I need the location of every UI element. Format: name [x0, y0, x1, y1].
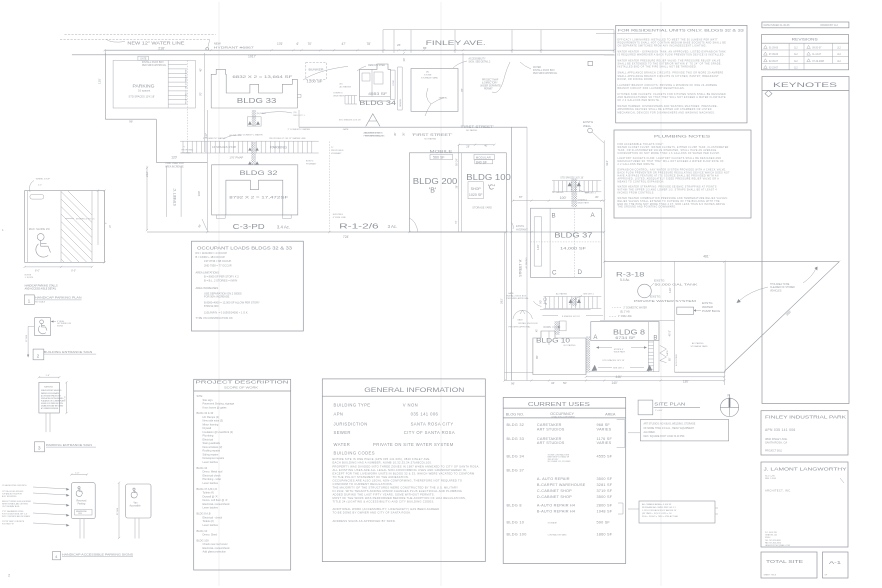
svg-text:TO THE POLICY STATEMENT OF THE: TO THE POLICY STATEMENT OF THE ANNEXATIO… — [333, 475, 410, 479]
gate A-frame south of bldg 34 — [366, 114, 380, 127]
svg-text:D: D — [578, 269, 583, 276]
svg-text:30': 30' — [402, 132, 406, 136]
svg-text:BLDG 34: BLDG 34 — [507, 455, 525, 459]
svg-text:MAX. SLOPE 2%: MAX. SLOPE 2% — [29, 227, 51, 231]
svg-text:IS REQUIRED WHEREVER A BACK FL: IS REQUIRED WHEREVER A BACK FLOW PREVENT… — [618, 54, 725, 57]
svg-text:NO PAVING: NO PAVING — [466, 129, 478, 132]
site north boundary line — [72, 54, 614, 56]
svg-text:Minor framing: Minor framing — [203, 422, 219, 426]
svg-text:PRIVATE ON SITE WATER SYSTEM: PRIVATE ON SITE WATER SYSTEM — [373, 442, 454, 447]
svg-text:Drywall: Drywall — [203, 426, 212, 430]
tree curve in yard — [425, 88, 431, 116]
svg-text:PARKING: PARKING — [133, 83, 155, 88]
street A south end — [505, 372, 534, 374]
svg-text:40': 40' — [484, 144, 488, 148]
svg-text:STRIPE 6': STRIPE 6' — [333, 93, 343, 95]
svg-text:WATER HEATER STRAPPING: PROVID: WATER HEATER STRAPPING: PROVIDE SEISMIC … — [618, 186, 717, 189]
svg-text:ADDED DURING THE LAST FIFTY YE: ADDED DURING THE LAST FIFTY YEARS, SOME … — [333, 493, 435, 497]
svg-text:FINLEY INDUSTRIAL PARK: FINLEY INDUSTRIAL PARK — [765, 415, 847, 420]
svg-text:07-09-06: 07-09-06 — [769, 54, 779, 56]
south boundary at bldg 8 — [675, 371, 726, 373]
existing fire line dashed — [328, 142, 330, 233]
svg-text:NO CLASS 1,11,111 USED: NO CLASS 1,11,111 USED — [548, 460, 571, 463]
svg-text:BLDG 100: BLDG 100 — [197, 538, 210, 542]
svg-text:Check new roof cover: Check new roof cover — [203, 542, 228, 546]
svg-text:Accessible: Accessible — [130, 505, 142, 508]
svg-text:50,000 GAL TANK: 50,000 GAL TANK — [655, 282, 700, 286]
svg-text:OCCUPANCY: OCCUPANCY — [550, 412, 574, 416]
south boundary line 724 ft — [147, 231, 604, 233]
dim between signs — [118, 483, 120, 538]
svg-text:590 SF: 590 SF — [597, 520, 611, 524]
svg-text:Lever latches: Lever latches — [203, 481, 219, 485]
building BLDG 37 outline — [531, 208, 602, 277]
svg-text:GENERAL INFORMATION: GENERAL INFORMATION — [364, 387, 464, 394]
svg-text:GATE: GATE — [666, 350, 669, 356]
svg-text:3281 SF: 3281 SF — [597, 483, 613, 487]
svg-text:Roofing repairs: Roofing repairs — [203, 449, 221, 453]
svg-text:BLDG 37: BLDG 37 — [507, 469, 525, 473]
svg-text:'FIRST STREET': 'FIRST STREET' — [461, 125, 494, 129]
svg-text:BLDG 10: BLDG 10 — [536, 338, 570, 345]
svg-text:BUNKER: BUNKER — [309, 68, 325, 72]
svg-text:INTO CONCRETE BELOW GRADE: INTO CONCRETE BELOW GRADE — [2, 515, 31, 518]
svg-text:AC PAVING: AC PAVING — [525, 257, 528, 268]
bottom dimension line — [505, 380, 725, 382]
svg-text:1948 SF: 1948 SF — [597, 510, 613, 514]
svg-text:1200 SF: 1200 SF — [307, 80, 323, 84]
svg-text:FOR 50% INCREASE: FOR 50% INCREASE — [204, 295, 230, 299]
svg-text:Pavement Striping, signage: Pavement Striping, signage — [203, 402, 235, 406]
svg-text:AC PAVING: AC PAVING — [556, 293, 567, 296]
svg-text:Downspout repairs: Downspout repairs — [203, 456, 225, 460]
svg-text:MECHANICAL DEVICES FOR DISHWAS: MECHANICAL DEVICES FOR DISHWASHERS AND W… — [618, 111, 716, 114]
svg-text:REQUIREMENTS SHALL NOT CONTAIN: REQUIREMENTS SHALL NOT CONTAIN MEDIUM BA… — [618, 41, 727, 44]
detail tag 4 — [53, 552, 61, 560]
svg-text:30': 30' — [595, 195, 599, 199]
svg-text:NEW 12" WATER LINE: NEW 12" WATER LINE — [127, 40, 184, 45]
svg-text:HANDICAP ACCESSIBLE PARKING SI: HANDICAP ACCESSIBLE PARKING SIGNS — [62, 552, 133, 556]
svg-text:Electrical check: Electrical check — [203, 473, 222, 477]
yard east boundary — [462, 53, 464, 126]
svg-text:SEE DET. 1: SEE DET. 1 — [585, 193, 597, 195]
svg-text:1017': 1017' — [248, 55, 257, 59]
svg-text:36': 36' — [456, 185, 459, 189]
svg-text:Lever latches: Lever latches — [203, 506, 219, 510]
svg-text:BLDG 100: BLDG 100 — [466, 173, 511, 182]
svg-text:176': 176' — [277, 42, 283, 46]
svg-text:BLDG 32: BLDG 32 — [240, 170, 278, 177]
svg-text:1860 SF: 1860 SF — [597, 532, 613, 536]
svg-text:C: C — [552, 270, 557, 277]
svg-text:2: 2 — [37, 353, 40, 359]
small square marker — [588, 61, 592, 65]
svg-text:INCHES FROM CONTROLS.: INCHES FROM CONTROLS. — [618, 193, 655, 195]
svg-text:01-29-06: 01-29-06 — [769, 47, 779, 49]
svg-text:4" FIRE LINE: 4" FIRE LINE — [618, 316, 632, 318]
svg-text:(E): (E) — [340, 84, 343, 86]
title block FINLEY INDUSTRIAL PARK — [761, 411, 848, 455]
svg-text:DOWN: DOWN — [544, 327, 552, 329]
svg-text:282': 282' — [499, 298, 503, 304]
svg-text:APN: APN — [334, 412, 344, 417]
dim line above bldg 37 — [513, 200, 604, 202]
svg-text:100': 100' — [197, 190, 201, 196]
parking hatch south of bldg 37 — [544, 296, 602, 298]
svg-text:Site sign.: Site sign. — [203, 398, 214, 402]
svg-text:WELL: WELL — [583, 124, 592, 128]
detail tag 1 — [24, 295, 34, 305]
svg-text:KEYNOTES: KEYNOTES — [773, 82, 838, 89]
svg-text:GATE: GATE — [517, 319, 523, 322]
parking hatch north of bldg 37 — [552, 180, 601, 182]
svg-text:B 8000+4000 = 12,000 SF ALLOW: B 8000+4000 = 12,000 SF ALLOW PER STORY — [204, 301, 260, 305]
svg-text:PRIVATE WATER SYSTEM: PRIVATE WATER SYSTEM — [634, 299, 697, 303]
svg-text:11-14-07: 11-14-07 — [812, 54, 822, 56]
svg-text:8'-0": 8'-0" — [71, 269, 76, 272]
svg-text:B = B.L. 2 STORIES = INF/N: B = B.L. 2 STORIES = INF/N — [204, 278, 237, 282]
site plan scale box — [638, 400, 653, 415]
svg-text:Electrical- review/check: Electrical- review/check — [203, 502, 231, 506]
svg-text:30': 30' — [402, 57, 406, 61]
svg-text:AREA INCREASES: AREA INCREASES — [196, 286, 219, 290]
panel PROJECT DESCRIPTION — [194, 379, 291, 570]
svg-text:70': 70' — [308, 42, 313, 46]
modular unit — [474, 155, 494, 160]
svg-text:CONC: CONC — [393, 79, 395, 86]
svg-text:120': 120' — [668, 287, 672, 293]
pavement handicap mark — [544, 298, 547, 301]
svg-text:PER SRFD APPROVAL: PER SRFD APPROVAL — [507, 297, 530, 300]
svg-text:LAVATORY FAUCETS FLOW: LAVATOR: LAVATORY FAUCETS FLOW: LAVATORY FAUCETS … — [618, 157, 722, 160]
svg-text:ABSORBING DEVICES SHALL BE EIT: ABSORBING DEVICES SHALL BE EITHER AIR CH… — [618, 108, 712, 111]
svg-text:07-19-2008: 07-19-2008 — [812, 61, 824, 63]
detail 3 parking entrance sign — [39, 376, 59, 378]
svg-text:BKS OCT. 1: BKS OCT. 1 — [294, 115, 306, 117]
svg-text:34': 34' — [551, 381, 555, 385]
svg-text:LAUNDRY BRANCH CIRCUITS: PROVI: LAUNDRY BRANCH CIRCUITS: PROVIDE A MINIM… — [618, 84, 718, 87]
svg-text:THE GROUND AND POINTING DOWNWA: THE GROUND AND POINTING DOWNWARD. — [618, 206, 677, 209]
svg-text:Plumbing - toilet: Plumbing - toilet — [203, 477, 222, 481]
detail tag 2 — [33, 349, 44, 360]
fold crease lines — [218, 2, 220, 586]
svg-text:BUILDING TYPE: BUILDING TYPE — [334, 403, 371, 408]
svg-text:SIGNS: SIGNS — [57, 325, 64, 327]
svg-text:UNDER SEPARATE: UNDER SEPARATE — [480, 85, 501, 88]
building BLDG 8 outline — [591, 322, 659, 341]
svg-text:'B': 'B' — [429, 188, 436, 195]
svg-text:STRIPE 6': STRIPE 6' — [578, 200, 588, 202]
leader dip under water line — [106, 39, 125, 42]
svg-text:BLDG 100: BLDG 100 — [507, 532, 527, 536]
svg-text:16 SPACES 9'X18': 16 SPACES 9'X18' — [212, 145, 237, 149]
sheet number block A-1 — [823, 552, 849, 578]
reserved parking sign — [71, 483, 95, 519]
svg-text:REMOVE SHED: REMOVE SHED — [368, 65, 385, 67]
svg-text:CITY OF SANTA ROSA: CITY OF SANTA ROSA — [404, 430, 455, 435]
svg-text:TITLE 24 (LIGHTING & ACCESSIBI: TITLE 24 (LIGHTING & ACCESSIBILITY) AND … — [333, 500, 435, 504]
first street north line — [299, 126, 527, 128]
wheel stop rect — [30, 195, 44, 200]
north arrow compass — [720, 398, 738, 416]
svg-text:BLDG 8: BLDG 8 — [507, 504, 522, 508]
svg-text:EFFICACY LUMINAIRES INSTALLED: EFFICACY LUMINAIRES INSTALLED TO MEET TH… — [618, 38, 719, 41]
svg-text:30': 30' — [393, 132, 397, 136]
svg-text:BLDG 8 A,B: BLDG 8 A,B — [197, 512, 211, 516]
svg-text:2ND 7938 = 77 OCCUP.: 2ND 7938 = 77 OCCUP. — [204, 264, 232, 268]
svg-text:PER SRFD APPROVAL: PER SRFD APPROVAL — [533, 72, 558, 75]
svg-text:Stair guardrails: Stair guardrails — [203, 441, 221, 445]
svg-text:REVISIONS: REVISIONS — [792, 38, 819, 42]
svg-text:PROPERTY WAS DIVIDED INTO THRE: PROPERTY WAS DIVIDED INTO THREE ZONES IN… — [333, 464, 480, 468]
svg-text:PARKING ENTRANCE SIGN: PARKING ENTRANCE SIGN — [46, 443, 92, 447]
svg-text:RELIEF VALVES SHALL EXTEND TO: RELIEF VALVES SHALL EXTEND TO OUTSIDE OF… — [618, 200, 720, 203]
detail 1 dims — [25, 266, 92, 268]
road curve northwest of bldg 34 — [303, 66, 348, 80]
svg-text:A-AUTO REPAIR H4: A-AUTO REPAIR H4 — [537, 504, 575, 508]
svg-text:16 spaces: 16 spaces — [138, 89, 151, 93]
svg-text:VARIES: VARIES — [597, 441, 612, 445]
bldg 37 east boundary 424 ft — [603, 140, 605, 320]
svg-text:HYDRANT: HYDRANT — [331, 152, 342, 155]
svg-text:Knox boxes @ gates: Knox boxes @ gates — [203, 405, 228, 409]
dim 481 ft line — [604, 261, 839, 263]
svg-text:AREA: AREA — [605, 413, 616, 417]
svg-text:4553 SF: 4553 SF — [368, 92, 387, 96]
svg-text:09-20-07: 09-20-07 — [812, 47, 822, 49]
svg-text:OCCUPANT LOADS BLDGS 32 & 33: OCCUPANT LOADS BLDGS 32 & 33 — [197, 246, 293, 251]
svg-text:WATER HEATER - EXPANSION TANK:: WATER HEATER - EXPANSION TANK: AN APPROV… — [618, 50, 727, 53]
svg-text:WATER HAMMER: DISHWASHERS AND: WATER HAMMER: DISHWASHERS AND WASHING MA… — [618, 105, 718, 108]
svg-text:MINIMUM FINE: MINIMUM FINE — [76, 511, 87, 513]
svg-text:Parking: Parking — [78, 503, 87, 506]
svg-text:NO PAVING: NO PAVING — [424, 138, 436, 141]
svg-text:FOOTING TYP.: FOOTING TYP. — [2, 523, 15, 525]
svg-text:ON SEPARATE SWITCHES FROM ANY: ON SEPARATE SWITCHES FROM ANY INCANDESCE… — [618, 45, 707, 48]
central parking strip between bldg 33 and 32 — [180, 140, 319, 142]
svg-text:BLDG 37: BLDG 37 — [554, 232, 592, 239]
parking south boundary — [105, 118, 156, 120]
svg-text:95'-24': 95'-24' — [456, 158, 459, 166]
svg-text:90': 90' — [539, 300, 543, 304]
svg-text:Lever latches: Lever latches — [203, 460, 219, 464]
table brackets — [617, 420, 625, 448]
svg-text:A: A — [593, 335, 597, 341]
svg-text:1101/INF/N. = 0 16363/24000: 1101/INF/N. = 0 16363/24000 < 1 O.K. — [204, 310, 249, 314]
svg-text:STORAGE: STORAGE — [548, 521, 558, 524]
crosswalk path south of bldg 33 — [247, 117, 261, 126]
svg-text:PROPOSED: PROPOSED — [181, 149, 193, 151]
svg-text:PROJECT MAP: PROJECT MAP — [482, 79, 499, 82]
svg-text:(85' YARD + 30')2 X .0125 = .5: (85' YARD + 30')2 X .0125 = .56 — [642, 512, 672, 515]
panel FOR RESIDENTIAL UNITS ONLY — [616, 25, 747, 123]
svg-text:AREA LIMITATIONS: AREA LIMITATIONS — [196, 270, 220, 274]
svg-text:8 SPACES 10'X 18': 8 SPACES 10'X 18' — [562, 315, 581, 318]
svg-text:VEHICLES: VEHICLES — [770, 290, 782, 292]
svg-text:ART STUDIOS: ART STUDIOS — [537, 427, 565, 431]
svg-text:HYDRANT: HYDRANT — [516, 228, 528, 231]
svg-text:HANDICAP PARKING PLAN: HANDICAP PARKING PLAN — [35, 296, 82, 300]
svg-text:1020 SF: 1020 SF — [469, 193, 483, 197]
leader from table to art note — [628, 432, 640, 434]
note box allowable area calc — [639, 501, 715, 523]
svg-text:3.4 Ac.: 3.4 Ac. — [277, 224, 290, 229]
street C — [166, 166, 168, 217]
svg-text:3500 SF: 3500 SF — [597, 495, 613, 499]
svg-text:JURISDICTION: JURISDICTION — [334, 421, 368, 426]
svg-text:EXISTING: EXISTING — [333, 214, 344, 216]
proposed water line dashed vertical — [187, 60, 189, 141]
svg-text:B: B — [653, 336, 657, 342]
svg-text:78': 78' — [367, 42, 372, 46]
table CURRENT USES — [503, 397, 626, 563]
svg-text:2" DOMESTIC WATER: 2" DOMESTIC WATER — [623, 306, 647, 309]
yard south line — [590, 371, 659, 373]
svg-text:EXSTG: EXSTG — [306, 160, 314, 162]
svg-text:C-3-PD: C-3-PD — [233, 224, 265, 231]
svg-text:MODULAR: MODULAR — [476, 156, 492, 160]
svg-text:CONSUMPTION OF NOT MORE THAN 1: CONSUMPTION OF NOT MORE THAN 1.6 GALLONS… — [618, 152, 721, 155]
svg-text:WATER CLOSET FLUSH: WATER CLOS: WATER CLOSET FLUSH: WATER CLOSETS, EITHE… — [618, 146, 729, 149]
svg-text:BLDG 200: BLDG 200 — [413, 177, 458, 186]
svg-text:BUILDING CODES: BUILDING CODES — [334, 451, 375, 456]
svg-text:ADDRESS SIGN: ADDRESS SIGN — [364, 132, 381, 135]
Finley Ave dimension line — [105, 49, 614, 51]
svg-text:6': 6' — [297, 42, 300, 46]
bldg 8 hatch column — [647, 341, 649, 372]
svg-text:SCOPE OF WORK: SCOPE OF WORK — [224, 386, 259, 389]
svg-text:Electrical - check: Electrical - check — [203, 515, 223, 519]
svg-text:GATE: GATE — [343, 128, 349, 131]
svg-text:STD SPACES 10'X 18': STD SPACES 10'X 18' — [560, 176, 584, 179]
wheelchair symbol detail 1 — [37, 234, 44, 241]
svg-text:WIDE PATH: WIDE PATH — [614, 351, 626, 354]
svg-text:PROJECT 3811: PROJECT 3811 — [765, 449, 783, 452]
dim line above block — [459, 144, 495, 146]
svg-text:2ND DOMEST'C WATER: 2ND DOMEST'C WATER — [238, 134, 263, 137]
svg-text:BOLT MOUNTING: BOLT MOUNTING — [2, 496, 17, 498]
svg-text:BACK FLOW PREVENTER OR PRESSUR: BACK FLOW PREVENTER OR PRESSURE REGULATI… — [618, 171, 731, 174]
svg-text:(E) 2" HB: (E) 2" HB — [620, 311, 630, 313]
svg-text:BLDG 33: BLDG 33 — [237, 98, 277, 105]
svg-text:GRATON, CA: GRATON, CA — [765, 534, 777, 537]
svg-text:NO PAVING: NO PAVING — [564, 344, 576, 347]
hatch strip west of bldg 34 — [345, 96, 355, 105]
svg-text:Demo. Metal roof: Demo. Metal roof — [203, 470, 223, 474]
svg-text:OF 2.2 GALLONS PER MINUTE.: OF 2.2 GALLONS PER MINUTE. — [618, 99, 661, 102]
table REVISIONS — [762, 35, 849, 70]
gate label — [138, 56, 149, 60]
svg-text:EACH BUILDING HAS A NUMBER, NU: EACH BUILDING HAS A NUMBER, NUMB 10,32,3… — [333, 461, 433, 465]
svg-text:FAX 707-823-3820: FAX 707-823-3820 — [765, 541, 781, 544]
svg-text:SMALL APPLIANCE BRANCH CIRCUIT: SMALL APPLIANCE BRANCH CIRCUITS: PROVIDE… — [618, 72, 724, 75]
svg-text:OF MORE THAN 2.5 GAL., HEAVY E: OF MORE THAN 2.5 GAL., HEAVY EQUIPMENT — [644, 427, 695, 430]
svg-text:Drywall @ 'A': Drywall @ 'A' — [203, 494, 219, 498]
svg-text:87': 87' — [519, 195, 523, 199]
svg-text:KITCHEN SINK FAUCETS: FAUCETS: KITCHEN SINK FAUCETS: FAUCETS FOR KITCHE… — [618, 93, 727, 96]
svg-text:5'-0": 5'-0" — [38, 185, 42, 187]
svg-text:02-09-07: 02-09-07 — [769, 61, 779, 63]
svg-text:ALLOWED.: ALLOWED. — [644, 431, 656, 434]
svg-text:1"=100': 1"=100' — [655, 410, 663, 412]
svg-text:WATER: WATER — [334, 442, 351, 447]
panel KEYNOTES — [762, 77, 849, 404]
street A west line — [505, 153, 507, 381]
svg-text:AREA INCREASE: AREA INCREASE — [165, 166, 184, 169]
svg-text:VARIES: VARIES — [597, 427, 612, 431]
svg-text:47': 47' — [342, 42, 347, 46]
svg-text:SITE:: SITE: — [197, 394, 204, 398]
stone storage yard outline — [411, 69, 458, 112]
svg-text:5.4 Ac.: 5.4 Ac. — [620, 278, 630, 282]
svg-text:SANTA ROSA CITY: SANTA ROSA CITY — [411, 421, 454, 426]
svg-text:B = 16363 + 184 OCCUP.: B = 16363 + 184 OCCUP. — [196, 255, 226, 259]
gate zigzag east of bldg 8 — [660, 345, 667, 362]
svg-text:1.25% FOR EACH FOOT ABOVE 20': 1.25% FOR EACH FOOT ABOVE 20' — [642, 509, 677, 512]
building BLDG 10 outline — [533, 331, 586, 375]
svg-text:1: 1 — [28, 298, 31, 304]
svg-text:BLDG 37 A,B,C,D: BLDG 37 A,B,C,D — [197, 487, 218, 491]
building BLDG 32 outline — [212, 165, 298, 215]
svg-text:SEE DET.1: SEE DET.1 — [613, 368, 625, 370]
svg-text:STRIPE 6': STRIPE 6' — [614, 349, 624, 351]
svg-text:STD SPACES 10'X 18': STD SPACES 10'X 18' — [602, 359, 625, 362]
svg-text:560 SF: 560 SF — [433, 156, 445, 160]
svg-text:New side exits (3): New side exits (3) — [203, 419, 224, 423]
van accessible sign — [126, 484, 151, 518]
svg-text:Toilets (2): Toilets (2) — [203, 519, 214, 523]
svg-text:1. SLOPE: 1. SLOPE — [25, 277, 34, 279]
svg-text:PROPOSED: PROPOSED — [331, 150, 344, 152]
detail 4 handicap accessible parking signs — [71, 474, 87, 476]
svg-text:BLDG 34: BLDG 34 — [197, 466, 208, 470]
svg-text:STD SPACES 10'X 18': STD SPACES 10'X 18' — [129, 94, 156, 98]
bldg 37 west wing — [534, 217, 541, 266]
detail 2 building entrance sign — [34, 318, 50, 336]
svg-text:THIS AREA TO BE: THIS AREA TO BE — [770, 283, 790, 286]
svg-text:120': 120' — [171, 155, 177, 159]
svg-text:SITE PLAN: SITE PLAN — [654, 402, 685, 407]
north side street line — [383, 29, 614, 31]
svg-text:HC Ramps (2): HC Ramps (2) — [203, 415, 220, 419]
svg-text:3 Ac.: 3 Ac. — [388, 224, 398, 229]
svg-text:29': 29' — [466, 145, 470, 149]
svg-text:724': 724' — [343, 235, 350, 239]
svg-text:3: 3 — [38, 446, 41, 452]
svg-text:BLDG 34: BLDG 34 — [359, 100, 396, 107]
svg-text:(E): (E) — [426, 72, 429, 74]
well leader line — [601, 140, 604, 143]
svg-text:USE SEPARATION ON 2 SIDES: USE SEPARATION ON 2 SIDES — [204, 291, 242, 295]
svg-text:WIDE PATH: WIDE PATH — [578, 202, 590, 205]
svg-text:GATE: GATE — [508, 292, 514, 295]
svg-text:8736/12,000: 8736/12,000 — [204, 304, 219, 308]
svg-text:3719 SF: 3719 SF — [597, 489, 613, 493]
svg-text:SIGN, SEE DETAIL 2: SIGN, SEE DETAIL 2 — [469, 61, 492, 64]
svg-text:80': 80' — [535, 355, 539, 359]
svg-text:STORAGE YARD: STORAGE YARD — [421, 77, 439, 80]
svg-text:GATE: GATE — [140, 57, 147, 60]
svg-text:PROJECT DESCRIPTION: PROJECT DESCRIPTION — [196, 380, 289, 385]
svg-text:7'-6": 7'-6" — [64, 396, 66, 400]
svg-text:AND ACCESS AISLE DETAIL: AND ACCESS AISLE DETAIL — [25, 287, 57, 290]
date issued box — [762, 22, 849, 28]
svg-text:176' PMAP: 176' PMAP — [229, 155, 243, 159]
note box art studios restrictions — [640, 420, 728, 441]
svg-text:60" MIN: 60" MIN — [26, 334, 28, 342]
svg-text:1ST 8736 = 88 OCCUP.: 1ST 8736 = 88 OCCUP. — [204, 259, 232, 263]
parking stall hatch — [167, 60, 169, 108]
